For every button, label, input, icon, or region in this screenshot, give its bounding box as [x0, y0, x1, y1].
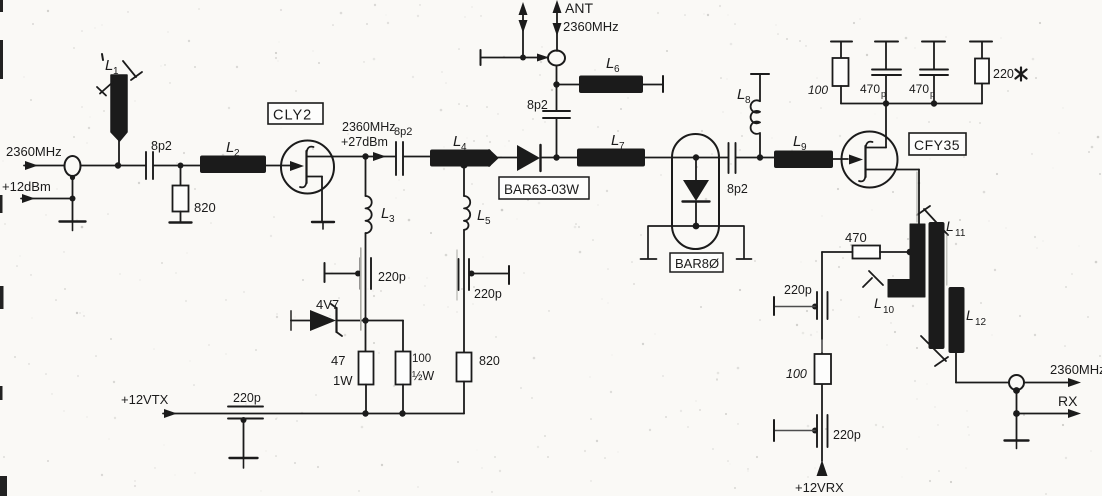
svg-text:2360MHz: 2360MHz	[6, 144, 62, 159]
svg-text:+12dBm: +12dBm	[2, 179, 51, 194]
svg-text:4: 4	[461, 142, 467, 153]
svg-text:BAR8Ø: BAR8Ø	[675, 256, 719, 271]
svg-text:820: 820	[194, 200, 216, 215]
svg-text:100: 100	[808, 83, 828, 97]
svg-text:8p2: 8p2	[727, 182, 748, 196]
svg-text:220p: 220p	[233, 391, 261, 405]
svg-text:p: p	[930, 89, 935, 99]
svg-text:470: 470	[909, 82, 929, 96]
svg-text:5: 5	[485, 216, 491, 227]
svg-text:½W: ½W	[412, 369, 434, 383]
svg-text:10: 10	[883, 305, 895, 316]
svg-text:4V7: 4V7	[316, 297, 339, 312]
svg-text:CLY2: CLY2	[273, 108, 312, 124]
svg-text:CFY35: CFY35	[914, 137, 960, 153]
svg-text:2: 2	[234, 148, 240, 159]
svg-text:470: 470	[860, 82, 880, 96]
svg-text:1: 1	[113, 66, 119, 77]
svg-text:12: 12	[975, 317, 987, 328]
svg-text:8p2: 8p2	[151, 139, 172, 153]
svg-text:220p: 220p	[474, 287, 502, 301]
svg-text:+27dBm: +27dBm	[341, 135, 388, 149]
svg-text:100: 100	[412, 353, 431, 365]
svg-text:8: 8	[745, 95, 751, 106]
svg-text:ANT: ANT	[565, 0, 593, 16]
svg-text:220p: 220p	[784, 283, 812, 297]
svg-text:2360MHz: 2360MHz	[563, 19, 619, 34]
svg-text:220: 220	[993, 67, 1014, 81]
svg-text:L: L	[966, 307, 974, 323]
svg-text:p: p	[881, 89, 886, 99]
svg-text:2360MHz: 2360MHz	[1050, 362, 1102, 377]
svg-text:470: 470	[845, 230, 867, 245]
svg-text:BAR63-03W: BAR63-03W	[504, 182, 579, 197]
svg-text:820: 820	[479, 354, 500, 368]
svg-text:100: 100	[786, 367, 807, 381]
svg-text:+12VRX: +12VRX	[795, 480, 844, 495]
svg-text:6: 6	[614, 64, 620, 75]
svg-text:8p2: 8p2	[527, 98, 548, 112]
svg-text:3: 3	[389, 214, 395, 225]
svg-text:L: L	[946, 218, 954, 234]
svg-text:8p2: 8p2	[394, 126, 412, 138]
svg-text:47: 47	[331, 353, 345, 368]
svg-text:11: 11	[955, 228, 966, 239]
svg-text:L: L	[874, 295, 882, 311]
svg-text:1W: 1W	[333, 373, 353, 388]
svg-text:9: 9	[801, 142, 807, 153]
svg-text:220p: 220p	[378, 270, 406, 284]
svg-text:RX: RX	[1058, 393, 1078, 409]
svg-text:220p: 220p	[833, 428, 861, 442]
svg-text:+12VTX: +12VTX	[121, 392, 169, 407]
svg-text:2360MHz: 2360MHz	[342, 120, 396, 134]
